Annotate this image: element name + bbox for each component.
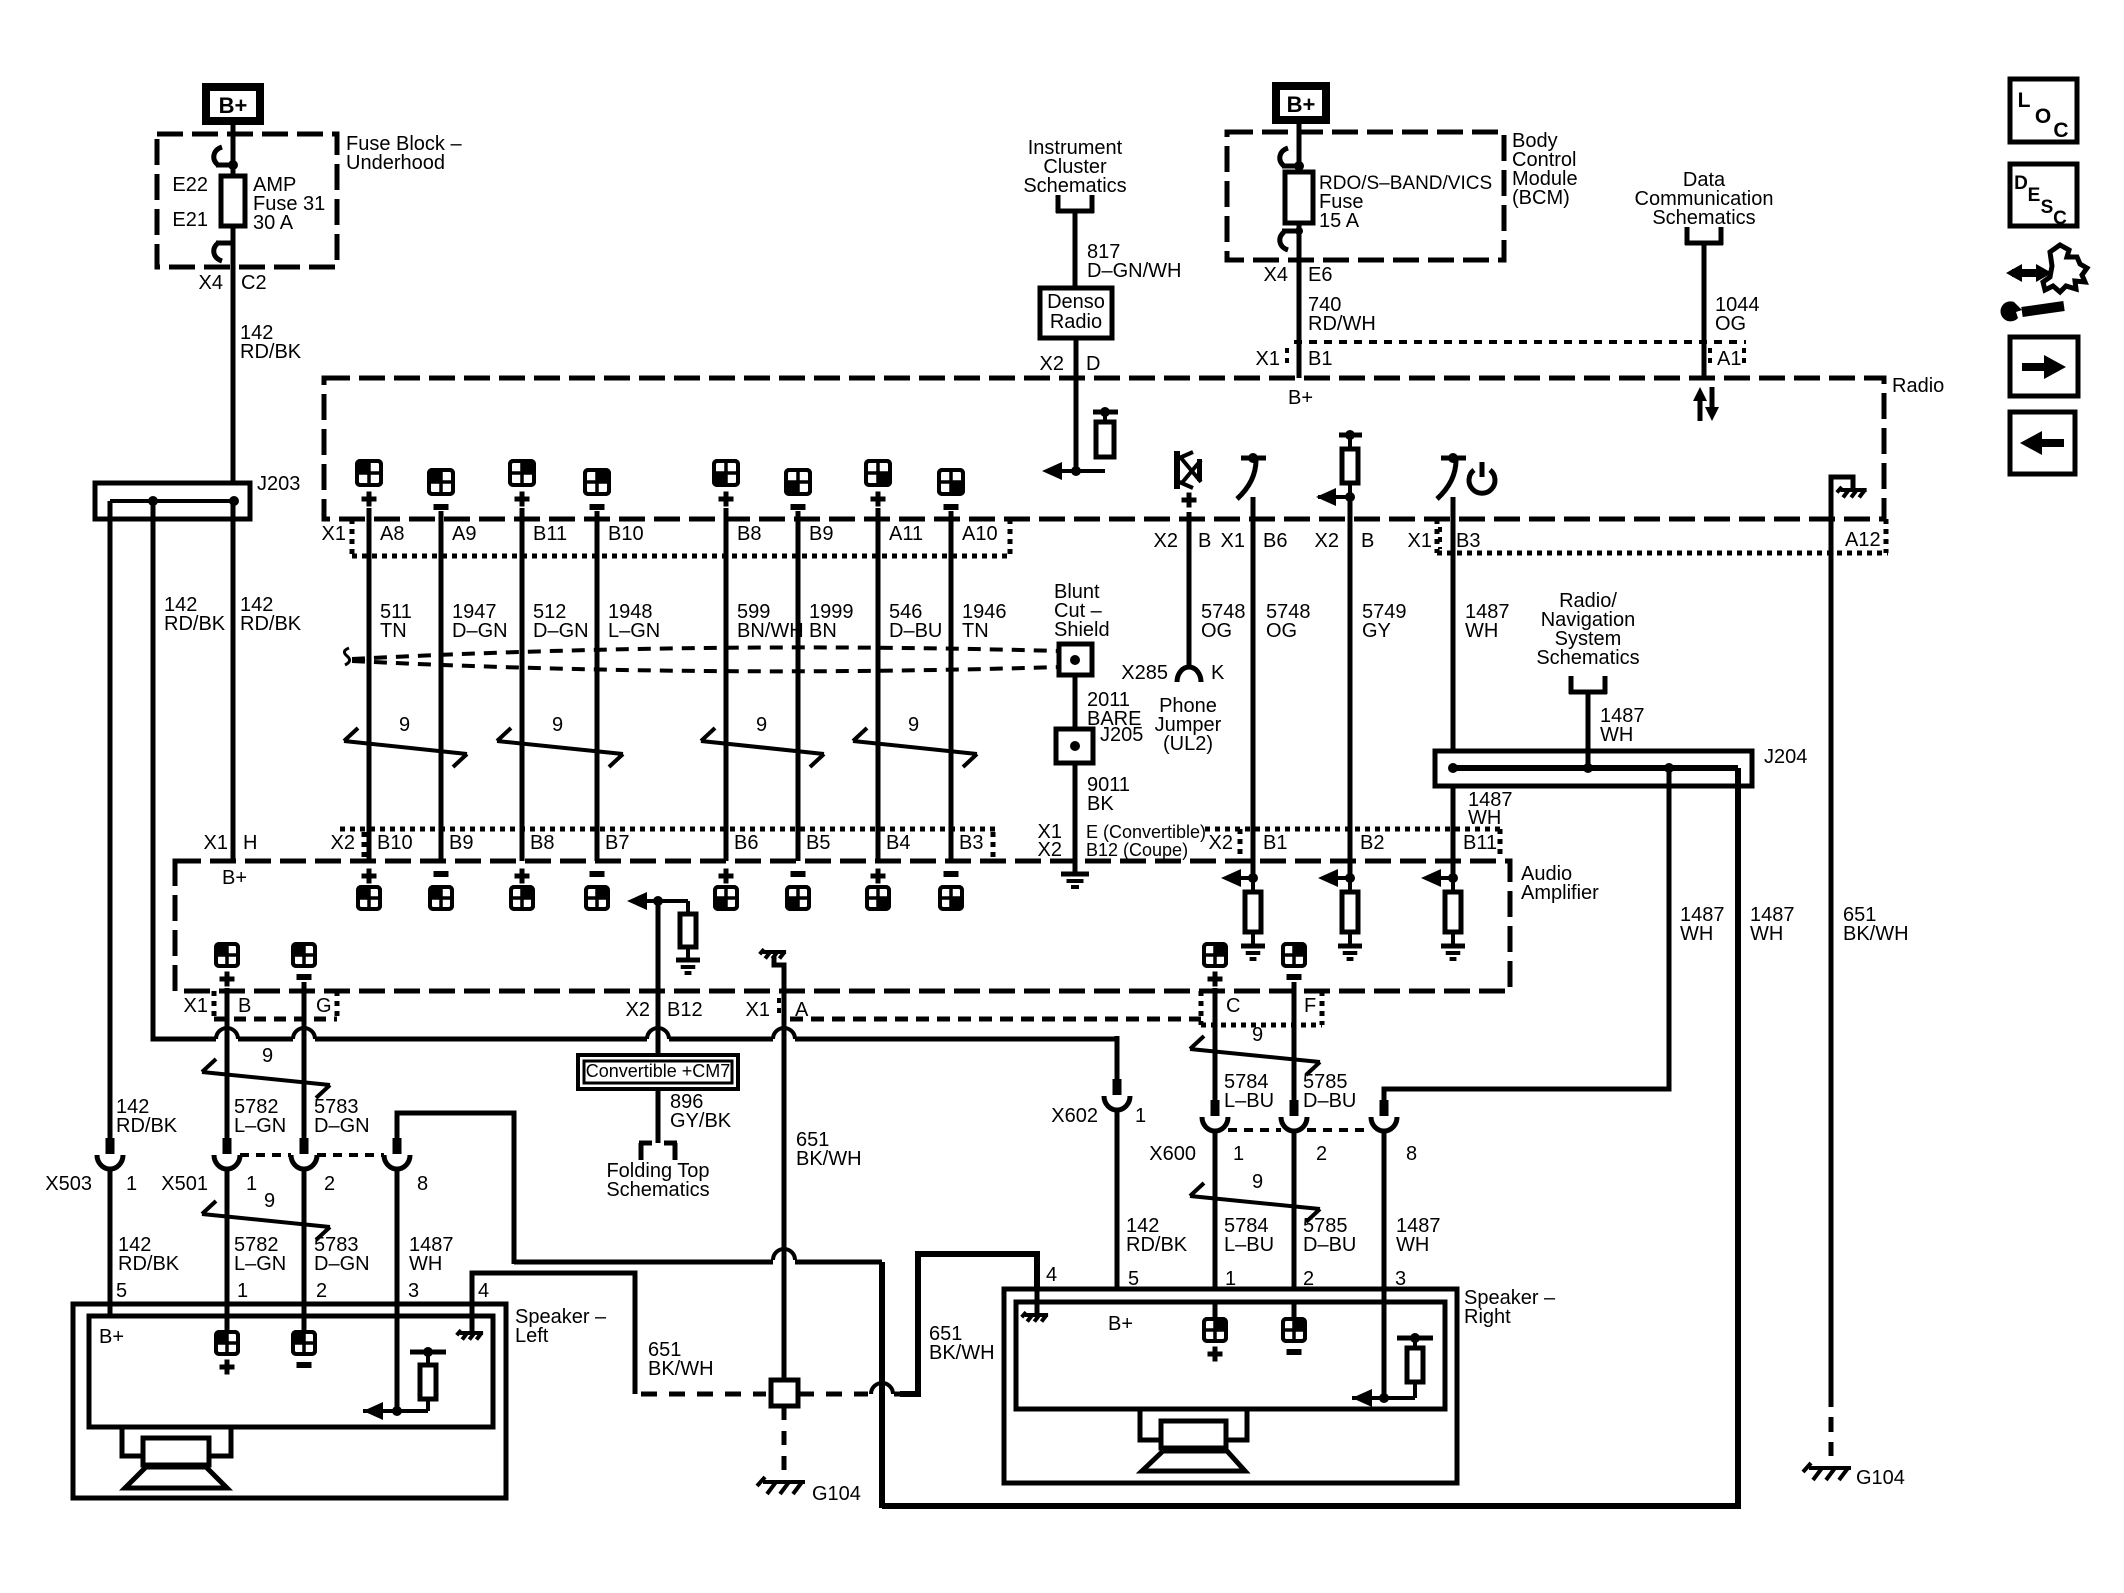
svg-text:Amplifier: Amplifier [1521,882,1599,904]
label Phone Jumper (UL2) [1155,695,1222,755]
twisted pair marker 599/1999 [701,714,824,767]
svg-text:9: 9 [552,714,563,736]
label Radio [1892,375,1944,397]
svg-text:X1: X1 [746,999,770,1021]
radio speaker terminal B10 [585,470,609,519]
wire X2 B12 to convertible [656,901,661,1055]
wire 1487 WH loop up segment [514,1262,882,1508]
svg-text:4: 4 [478,1280,489,1302]
svg-text:X1: X1 [1256,348,1280,370]
fuse clip E22 [214,147,238,170]
svg-text:9: 9 [756,714,767,736]
amp speaker terminal B4 [867,869,889,910]
svg-text:X2: X2 [331,832,355,854]
speaker left internal amp-on circuit [363,1316,446,1420]
pin label A8 [380,523,404,545]
speaker right inner box [1016,1302,1445,1409]
fuse F31 AMP 30A [221,176,245,226]
svg-text:B6: B6 [734,832,758,854]
wire label 5749 GY [1362,601,1407,642]
radio speaker terminal A9 [429,470,453,519]
connector X503 pin 1 [45,1138,137,1195]
svg-text:2: 2 [1316,1143,1327,1165]
label B+ inside radio [1288,387,1313,409]
wire 5784 X600-1 to speaker right [1213,1132,1218,1291]
twisted pair marker 511/1947 [344,714,467,767]
twisted pair marker 5782/5783 upper [202,1045,330,1098]
svg-text:B1: B1 [1308,348,1332,370]
wire label 142 RD/BK (fuse output) [240,322,302,363]
pin label B5 (amp) [806,832,830,854]
pin label B9 [809,523,833,545]
amp pin group box X1 B-G [214,991,337,1019]
svg-text:B+: B+ [222,867,247,889]
radio tone flag symbol B6 [1237,453,1266,499]
wire 599 BN/WH [726,519,804,861]
svg-text:X4: X4 [1264,264,1288,286]
label Instrument Cluster Schematics [1023,137,1126,197]
svg-text:B11: B11 [533,523,567,545]
body control module dashed box [1227,132,1504,260]
svg-text:Schematics: Schematics [606,1179,709,1201]
svg-text:B9: B9 [809,523,833,545]
wire 1044 OG [1702,243,1707,378]
dashed 651 splice to ground [782,1406,787,1474]
wire 5749 GY radio B to amp B2 [1348,497,1353,861]
svg-text:D–BU: D–BU [1303,1234,1356,1256]
svg-text:30 A: 30 A [253,212,294,234]
svg-text:E21: E21 [172,209,208,231]
hop over A wire [773,1028,795,1039]
wire 5782 X501-1 to speaker [225,1169,230,1316]
icon back arrow [2010,412,2075,474]
fuse RDO/S-BAND/VICS 15A [1285,172,1313,223]
svg-text:B+: B+ [99,1326,124,1348]
label Blunt Cut - Shield [1054,581,1110,641]
svg-text:3: 3 [408,1280,419,1302]
wire 5785 amp F to X600-2 [1292,991,1297,1116]
wire label 1044 OG [1715,294,1760,335]
svg-text:B12 (Coupe): B12 (Coupe) [1086,840,1188,860]
speaker right cone icon [1140,1409,1247,1471]
label Body Control Module (BCM) [1512,130,1578,209]
pin label A1 [1710,348,1744,370]
svg-text:Schematics: Schematics [1023,175,1126,197]
pin label X1 E (Convertible) [1038,821,1207,843]
pin label X2 B12 (Coupe) [1038,839,1189,861]
amp speaker terminal B6 [715,869,737,910]
pin label X2 (amp group) [331,832,355,854]
pin label A9 [452,523,476,545]
radio speaker terminal B9 [786,470,810,519]
svg-text:C: C [2053,119,2068,142]
pin label X2 (amp right) [1209,832,1233,854]
svg-text:Convertible +CM7: Convertible +CM7 [586,1061,731,1081]
svg-text:Shield: Shield [1054,619,1110,641]
amp internal load at B11 [1421,861,1465,959]
svg-text:BK/WH: BK/WH [929,1342,995,1364]
option box Convertible +CM7 [578,1055,738,1089]
power feed B+ battery symbol (right) [1272,82,1330,124]
amp speaker terminal B10 [358,869,380,910]
ground G104 (center) [757,1477,861,1505]
svg-text:B3: B3 [959,832,983,854]
svg-text:A11: A11 [889,523,923,545]
pin label X4 C2 [199,272,267,294]
amp pin dashed line right of A [790,1017,1201,1022]
power standby icon [1469,462,1495,493]
svg-text:8: 8 [1406,1143,1417,1165]
pin label X1 B1 [1256,348,1333,370]
svg-text:A9: A9 [452,523,476,545]
wire 512 D–GN [522,519,589,861]
svg-text:WH: WH [1396,1234,1429,1256]
svg-text:B8: B8 [530,832,554,854]
wire 1487 WH J204 to amp B11 [1453,786,1513,861]
svg-text:9: 9 [262,1045,273,1067]
pin label X1 B6 [1221,530,1288,552]
splice G104 box [771,1380,798,1406]
svg-text:BN: BN [809,620,837,642]
svg-text:J205: J205 [1100,724,1143,746]
svg-text:4: 4 [1046,1264,1057,1286]
wire label 142 RD/BK (speaker right) [1126,1215,1188,1256]
pin label X2 B (mute) [1154,530,1212,552]
wire 9011 BK [1075,763,1130,861]
svg-text:(BCM): (BCM) [1512,187,1570,209]
svg-text:Radio: Radio [1892,375,1944,397]
wire label 5784 L-BU lower [1224,1215,1274,1256]
svg-text:B: B [238,995,251,1017]
svg-text:G104: G104 [1856,1467,1905,1489]
wire label 1487 WH (B3) [1465,601,1510,642]
wire 1487 WH J204 long loop to X501-8 [882,768,1795,1506]
svg-text:B12: B12 [667,999,703,1021]
svg-text:TN: TN [962,620,989,642]
label Speaker - Left [515,1306,607,1347]
svg-text:B7: B7 [605,832,629,854]
pin label X1 A (amp bottom) [746,998,809,1021]
svg-text:X503: X503 [45,1173,92,1195]
svg-text:RD/WH: RD/WH [1308,313,1376,335]
wire label 1487 WH (speaker left 3) [409,1234,454,1275]
wire 142 RD/BK J203 to X503 [108,501,113,1151]
radio muted speaker symbol X2 B [1174,451,1202,508]
amp speaker terminal G (left-) [293,944,315,991]
svg-text:WH: WH [1600,724,1633,746]
label Radio/Navigation System Schematics [1536,590,1639,669]
wire label 5785 D-BU lower [1303,1215,1356,1256]
wire 2011 BARE [1075,675,1141,730]
wire 1487 WH loop to X501-8 [397,1113,514,1264]
svg-text:BK/WH: BK/WH [796,1148,862,1170]
svg-text:TN: TN [380,620,407,642]
connector X501 pin 2 [291,1138,335,1195]
dashed 651 link to splice [641,1392,766,1397]
svg-text:1: 1 [1135,1105,1146,1127]
svg-text:9: 9 [264,1190,275,1212]
svg-text:A8: A8 [380,523,404,545]
svg-text:8: 8 [417,1173,428,1195]
label E21 [172,209,208,231]
radio top pin line [1294,340,1746,344]
svg-text:OG: OG [1715,313,1746,335]
label B+ inside amp [222,867,247,889]
pin label B10 (amp) [377,832,413,854]
label E22 [172,174,208,196]
wire label 5783 D-GN upper [314,1096,370,1137]
amp top pin line X2 group [340,829,995,858]
svg-text:F: F [1304,995,1316,1017]
svg-text:K: K [1211,662,1225,684]
connector X600 pin 2 [1281,1100,1327,1165]
svg-text:X2: X2 [1038,839,1062,861]
svg-text:C: C [1226,995,1240,1017]
wire 896 GY/BK [658,1089,732,1143]
svg-text:RD/BK: RD/BK [116,1115,178,1137]
radio speaker terminal B11 [510,461,534,519]
pin label A11 [889,523,923,545]
audio amplifier dashed box [175,861,1510,991]
connector X602 pin 1 [1051,1079,1146,1127]
wire 5748 OG radio B to X285 [1187,512,1192,665]
connector X501 dashed link [240,1153,384,1157]
svg-text:1: 1 [237,1280,248,1302]
svg-text:A10: A10 [962,523,998,545]
svg-text:B8: B8 [737,523,761,545]
amp internal load at B1 [1221,861,1265,959]
label RDO/S-BAND/VICS Fuse 15 A [1319,173,1492,232]
power feed B+ battery symbol (left) [202,83,264,125]
twisted pair marker 546/1946 [853,714,977,767]
shield drain dashed ellipse [344,647,1059,671]
wire 142 RD/BK J203 down to X602 run [153,501,1117,1079]
ground G104 (right) [1803,1463,1905,1489]
svg-text:L–GN: L–GN [234,1253,286,1275]
svg-text:D–BU: D–BU [889,620,942,642]
wire 1999 BN [798,519,854,861]
svg-text:9: 9 [908,714,919,736]
svg-text:B3: B3 [1456,530,1480,552]
svg-text:2: 2 [316,1280,327,1302]
svg-text:9: 9 [1252,1024,1263,1046]
wire from B+ to fuse E22 [231,125,236,176]
radio speaker terminal A8 [357,461,381,519]
pin label F (amp bottom) [1304,995,1316,1017]
off-page connector folding top [639,1143,677,1160]
hop of 1487 line over 651 wire at 1260 [773,1249,795,1260]
speaker right terminal - (5785) [1283,1302,1305,1352]
wire 5785 X600-2 to speaker right [1292,1132,1297,1291]
off-page connector instrument cluster [1056,195,1094,213]
svg-text:L–BU: L–BU [1224,1090,1274,1112]
svg-text:BK/WH: BK/WH [1843,923,1909,945]
connector X501 pin 1 [161,1138,257,1195]
pin label X2 B (2) [1315,530,1375,552]
wire label 5783 D-GN lower [314,1234,370,1275]
svg-text:X1: X1 [1221,530,1245,552]
svg-text:X2: X2 [1154,530,1178,552]
svg-text:A12: A12 [1845,529,1881,551]
pin label B1 (amp) [1263,832,1287,854]
wire label 1487 WH (speaker right 3) [1396,1215,1441,1256]
wire label 142 RD/BK (left col 1) [164,594,226,635]
svg-text:L–GN: L–GN [234,1115,286,1137]
wire 1487 X501-8 to speaker [395,1169,400,1316]
label Audio Amplifier [1521,863,1599,904]
svg-text:X1: X1 [1408,530,1432,552]
icon DESC [2010,164,2077,229]
speaker right pin numbers [1046,1264,1406,1290]
svg-text:J204: J204 [1764,746,1807,768]
svg-text:OG: OG [1201,620,1232,642]
pin label X4 E6 [1264,264,1333,286]
svg-text:X600: X600 [1149,1143,1196,1165]
svg-text:WH: WH [409,1253,442,1275]
wire label 651 BK/WH (amp A) [796,1129,862,1170]
svg-text:D: D [1086,353,1100,375]
svg-text:X2: X2 [1040,353,1064,375]
svg-text:BK/WH: BK/WH [648,1358,714,1380]
label Fuse Block - Underhood [346,133,462,174]
wire 5783 X501-2 to speaker [302,1169,307,1316]
amp internal load at B2 [1318,861,1362,959]
svg-text:9: 9 [399,714,410,736]
radio speaker terminal A10 [939,470,963,519]
svg-text:X501: X501 [161,1173,208,1195]
svg-text:B+: B+ [1287,92,1316,117]
amp speaker terminal B5 [787,874,809,909]
wire label 817 D-GN/WH [1087,241,1181,282]
wire label 142 RD/BK (X503 lower) [118,1234,180,1275]
speaker left terminal - (5783) [293,1316,315,1365]
svg-text:O: O [2035,105,2051,128]
svg-text:5: 5 [116,1280,127,1302]
pin label B11 (amp) [1463,832,1497,854]
radio internal chassis ground A12 [1831,477,1867,519]
wire 142 RD/BK fuse to J203 [231,226,236,483]
svg-text:B2: B2 [1360,832,1384,854]
svg-text:BN/WH: BN/WH [737,620,804,642]
svg-text:X602: X602 [1051,1105,1098,1127]
radio speaker terminal A11 [866,461,890,519]
twisted pair marker 5784/5785 lower [1190,1171,1320,1222]
pin label B (amp bottom) [238,995,251,1017]
splice pack J203 [95,473,300,519]
svg-text:1: 1 [126,1173,137,1195]
connector X600 pin 1 [1149,1100,1244,1165]
amp speaker terminal B7 [586,874,608,909]
svg-text:D–GN: D–GN [314,1253,370,1275]
svg-text:B+: B+ [219,93,248,118]
amp speaker terminal C (right+) [1204,944,1226,991]
connector X600 dashed link [1228,1128,1371,1132]
svg-text:G: G [316,995,332,1017]
svg-text:Denso: Denso [1047,291,1105,313]
svg-text:Left: Left [515,1325,549,1347]
hop over amp G wire [293,1028,315,1039]
blunt cut shield box [1059,644,1092,675]
svg-text:D–GN: D–GN [533,620,589,642]
svg-text:X285: X285 [1121,662,1168,684]
connector X501 pin 8 [384,1138,428,1195]
svg-text:GY/BK: GY/BK [670,1110,732,1132]
svg-text:RD/BK: RD/BK [164,613,226,635]
icon forward arrow [2010,337,2078,396]
wire label 5782 L-GN lower [234,1234,286,1275]
svg-text:RD/BK: RD/BK [1126,1234,1188,1256]
svg-text:GY: GY [1362,620,1391,642]
speaker left terminal + (5782) [216,1316,238,1375]
pin label B11 [533,523,567,545]
fuse clip bottom (BCM) [1280,227,1303,250]
svg-text:D–GN/WH: D–GN/WH [1087,260,1181,282]
wire label 5748 OG (phone) [1201,601,1246,642]
svg-text:B10: B10 [608,523,644,545]
amp speaker terminal F (right-) [1283,944,1305,991]
wire label 142 RD/BK (X503 upper) [116,1096,178,1137]
svg-text:D–GN: D–GN [452,620,508,642]
svg-text:H: H [243,832,257,854]
wire 1947 D–GN [441,519,508,861]
wire 651 right riser [900,1254,1037,1394]
wire label 5784 L-BU upper [1224,1071,1274,1112]
wire label 740 RD/WH [1308,294,1376,335]
svg-text:X2: X2 [1209,832,1233,854]
svg-text:S: S [2041,197,2054,218]
dashed 651 splice to right [798,1383,905,1394]
radio speaker terminal B8 [714,461,738,519]
wire label 651 BK/WH (left) [648,1339,714,1380]
twisted pair marker 5784/5785 upper [1190,1024,1320,1075]
svg-text:B1: B1 [1263,832,1287,854]
pin label B4 (amp) [886,832,910,854]
speaker right pin4 chassis ground [1022,1291,1048,1322]
amp pin group box C-F [1201,991,1322,1025]
amp top pin line X2 B1-B11 group [1205,829,1500,856]
connector X600 pin 8 [1371,1100,1417,1165]
svg-text:WH: WH [1468,807,1501,829]
svg-text:X1: X1 [204,832,228,854]
speaker right outer box [1004,1289,1457,1483]
svg-text:G104: G104 [812,1483,861,1505]
svg-text:B: B [1361,530,1374,552]
svg-text:Schematics: Schematics [1652,207,1755,229]
svg-text:BK: BK [1087,793,1114,815]
wire 511 TN [369,519,412,861]
wire 5782 amp B to X501-1 [225,991,230,1138]
wire B+ to RDO fuse [1297,124,1302,172]
radio internal resistor at D input [1042,407,1118,480]
pin label G (amp bottom) [316,995,332,1017]
svg-text:Schematics: Schematics [1536,647,1639,669]
svg-text:L: L [2018,89,2031,112]
speaker right terminal + (5784) [1204,1302,1226,1362]
wire label 5782 L-GN upper [234,1096,286,1137]
svg-text:X1: X1 [184,995,208,1017]
wire 740 RD/WH fuse to radio B1 [1297,223,1302,378]
wire 651 BK/WH A12 to G104 [1829,519,1834,1456]
wire label 142 RD/BK (left col 2) [240,594,302,635]
label Folding Top Schematics [606,1160,709,1201]
splice J205 [1056,724,1143,763]
wire 1948 L–GN [597,519,660,861]
svg-text:X2: X2 [626,999,650,1021]
svg-text:C: C [2053,208,2067,229]
svg-text:WH: WH [1750,923,1783,945]
svg-text:9: 9 [1252,1171,1263,1193]
svg-text:WH: WH [1465,620,1498,642]
